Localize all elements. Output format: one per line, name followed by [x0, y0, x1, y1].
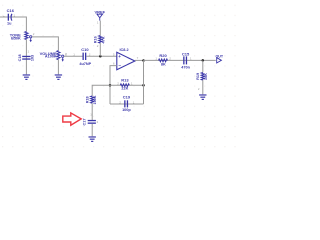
svg-text:IC8.2: IC8.2 — [120, 48, 129, 52]
wire op-amp output to junction — [135, 59, 144, 61]
svg-text:R19: R19 — [196, 73, 200, 80]
wire C10 to op-amp + input — [86, 55, 117, 57]
wire right vertical output to C19 row — [143, 61, 145, 105]
svg-text:R16: R16 — [94, 36, 98, 43]
ground under VOLUME — [55, 74, 62, 80]
svg-text:C19: C19 — [123, 95, 131, 100]
ground under C17 — [89, 136, 96, 142]
svg-text:100K: 100K — [93, 95, 97, 104]
wire jack branch horizontal — [92, 85, 110, 96]
svg-text:C16: C16 — [7, 8, 15, 13]
wire feedback bottom row — [110, 103, 144, 105]
svg-text:R18: R18 — [85, 96, 89, 103]
wire VOLUME bottom to ground — [57, 60, 59, 75]
wire lower input — [110, 66, 117, 104]
resistor R13 22K — [117, 78, 133, 91]
wire R19 to ground — [202, 80, 204, 94]
capacitor C17 — [83, 119, 99, 126]
svg-text:1u: 1u — [7, 21, 12, 25]
capacitor C19 — [119, 95, 135, 113]
svg-text:+: + — [118, 54, 121, 59]
svg-text:−: − — [118, 63, 121, 68]
ground under R19 — [199, 94, 206, 100]
capacitor C18 — [18, 50, 35, 62]
wire VREF to R16 — [99, 21, 101, 36]
resistor R19 10K — [196, 73, 208, 81]
svg-text:B50K: B50K — [11, 36, 21, 40]
resistor R18 — [85, 95, 97, 104]
port OUT — [216, 54, 224, 63]
svg-text:103: 103 — [30, 55, 34, 61]
wire TONE bottom to C18 — [25, 40, 27, 75]
svg-text:22K: 22K — [121, 86, 128, 90]
node output junction — [142, 59, 145, 62]
svg-text:R20: R20 — [159, 53, 167, 58]
wire R16 to junction — [99, 43, 101, 56]
ground under C18 — [23, 74, 30, 80]
resistor R20 8K — [155, 53, 171, 67]
svg-text:VREF: VREF — [94, 9, 105, 14]
svg-text:470n: 470n — [181, 66, 190, 70]
wire feedback middle row — [110, 84, 144, 86]
wire C17 to ground — [91, 124, 93, 137]
svg-text:C17: C17 — [83, 119, 87, 126]
node feedback right junction — [142, 84, 145, 87]
svg-text:A100K: A100K — [45, 55, 57, 59]
node feedback left junction — [109, 84, 112, 87]
svg-text:100p: 100p — [122, 108, 131, 112]
svg-text:4u7NP: 4u7NP — [79, 62, 91, 66]
svg-text:C10: C10 — [81, 47, 89, 52]
wire junction down to R19 — [202, 60, 204, 72]
potentiometer TONE B50K — [10, 32, 35, 43]
capacitor C16 — [3, 8, 16, 26]
svg-text:C18: C18 — [18, 54, 22, 61]
op-amp IC8.2 — [113, 48, 139, 70]
svg-text:8K: 8K — [161, 63, 166, 67]
wire output run to OUT — [144, 59, 216, 61]
red annotation arrow — [63, 113, 81, 125]
wire input left to C16 and corner down to TONE pot — [0, 17, 26, 32]
resistor R16 47K — [94, 36, 106, 48]
potentiometer VOLUME A100K — [40, 51, 67, 62]
capacitor C15 470n — [181, 51, 192, 69]
svg-text:47K: 47K — [101, 36, 105, 43]
wire VOLUME wiper to C10 — [64, 55, 83, 57]
svg-text:+: + — [3, 14, 5, 18]
wire R18 to C17 — [91, 103, 93, 120]
svg-text:10K: 10K — [204, 73, 208, 80]
capacitor C10 — [79, 47, 91, 66]
node junction main/R16 — [99, 55, 102, 58]
svg-text:C15: C15 — [182, 51, 190, 56]
node output/R19 junction — [202, 59, 205, 62]
svg-text:R13: R13 — [121, 78, 129, 83]
wire TONE wiper to VOLUME top — [32, 37, 59, 51]
power port VREF — [94, 9, 105, 20]
